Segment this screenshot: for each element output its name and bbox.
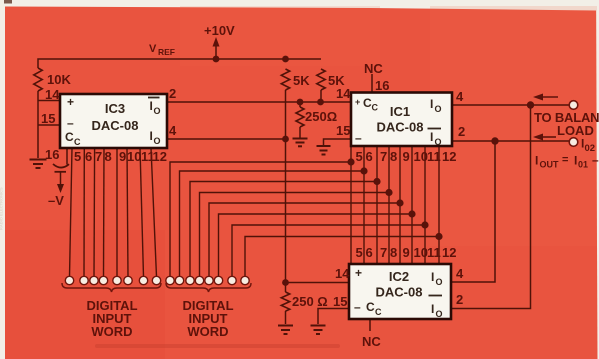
junction 250ohm1 top	[297, 99, 304, 106]
svg-text:9: 9	[403, 245, 410, 260]
svg-text:O: O	[435, 137, 442, 147]
junction staircase 6	[408, 210, 415, 217]
svg-text:8: 8	[105, 149, 112, 164]
svg-text:I: I	[431, 270, 434, 284]
svg-text:12: 12	[153, 149, 167, 164]
svg-text:10: 10	[414, 149, 428, 164]
svg-text:IC2: IC2	[389, 269, 409, 284]
svg-text:6: 6	[366, 149, 373, 164]
svg-text:5: 5	[356, 245, 363, 260]
junction staircase 3	[373, 178, 380, 185]
svg-text:2: 2	[458, 124, 465, 139]
svg-text:DAC-08: DAC-08	[92, 118, 139, 133]
svg-text:6: 6	[85, 149, 92, 164]
svg-text:9: 9	[119, 149, 126, 164]
wire IC3 left vertical to ground	[37, 101, 39, 159]
svg-text:14: 14	[336, 86, 351, 101]
ground under 250ohm2	[278, 326, 293, 335]
svg-text:=: =	[562, 154, 568, 166]
brace group 1	[62, 283, 161, 292]
junction +10V	[213, 56, 220, 63]
wire 250ohm1 drop	[299, 102, 301, 107]
wire staircase bus 4	[200, 193, 390, 277]
svg-text:WORD: WORD	[187, 324, 228, 339]
wire 5K1 vertical x=285	[285, 90, 287, 283]
svg-text:14: 14	[45, 87, 60, 102]
wire IC3 pin10 drop	[127, 148, 128, 277]
svg-text:I: I	[150, 129, 153, 143]
svg-text:6: 6	[366, 245, 373, 260]
wire IC3 pin14	[38, 100, 60, 102]
svg-text:15: 15	[41, 111, 55, 126]
IC1 DAC-08 body	[351, 93, 452, 147]
wire IC1-IC2 pin8 vertical	[388, 146, 390, 264]
svg-text:2: 2	[456, 292, 463, 307]
ground at IC1 pin15	[317, 146, 331, 155]
digital input terminals group 2	[166, 276, 249, 284]
wire IC3 pin4 line	[167, 138, 286, 140]
junction 5K1 top	[282, 56, 289, 63]
wire staircase bus 6	[219, 214, 413, 277]
svg-text:DAC-08: DAC-08	[377, 120, 424, 135]
svg-text:01: 01	[578, 160, 588, 170]
svg-text:C: C	[366, 300, 375, 314]
svg-text:OUT: OUT	[540, 160, 560, 170]
svg-text:10: 10	[127, 149, 141, 164]
junction staircase 8	[435, 233, 442, 240]
ground at 10K / IC3 left	[30, 160, 47, 169]
wire staircase bus 8	[245, 237, 439, 277]
wire IC1-IC2 pin12 vertical	[438, 146, 440, 264]
svg-text:NC: NC	[362, 334, 381, 349]
IC2 DAC-08 body	[349, 264, 451, 319]
svg-text:C: C	[65, 130, 74, 144]
svg-text:11: 11	[427, 149, 441, 164]
svg-text:9: 9	[403, 149, 410, 164]
current arrow 2	[541, 136, 556, 138]
wire IC1-IC2 pin11 vertical	[424, 146, 426, 264]
wire IC1-IC2 pin10 vertical	[411, 146, 413, 264]
wire 250ohm2 bottom to ground	[285, 283, 287, 293]
svg-text:NC: NC	[364, 61, 383, 76]
junction staircase 7	[421, 221, 428, 228]
svg-text:O: O	[435, 104, 442, 114]
svg-text:16: 16	[375, 78, 389, 93]
svg-text:+10V: +10V	[204, 23, 235, 38]
wire IC3 pin12 drop	[151, 148, 157, 277]
svg-text:O: O	[436, 277, 443, 287]
wire IC2 NC stub	[369, 318, 371, 331]
+10V supply arrow	[213, 37, 220, 47]
capacitor at IC3 pin16	[53, 164, 69, 172]
wire IC1-IC2 pin9 vertical	[399, 146, 401, 264]
svg-text:–V: –V	[48, 193, 64, 208]
wire IObar bus vertical	[451, 141, 495, 282]
wire IC3 pin7 drop	[93, 148, 96, 277]
wire staircase bus 1	[170, 162, 351, 277]
svg-text:WORD: WORD	[91, 324, 132, 339]
svg-text:+: +	[355, 266, 362, 280]
svg-text:12: 12	[442, 149, 456, 164]
wire IC1-IC2 pin6 vertical	[363, 146, 365, 264]
wire IC1 pin16 stub	[371, 74, 373, 93]
svg-text:15: 15	[333, 294, 347, 309]
wire +10V arrow stem	[215, 46, 217, 59]
IC3 DAC-08 body	[60, 94, 167, 148]
terminal circle IO1 output	[569, 101, 578, 110]
svg-text:–: –	[354, 300, 361, 314]
wire IC1 pin4 output line	[452, 104, 569, 106]
svg-text:7: 7	[380, 245, 387, 260]
svg-text:10: 10	[414, 245, 428, 260]
svg-text:16: 16	[45, 147, 59, 162]
resistor 10K	[34, 68, 42, 91]
resistor 250ohm second	[281, 292, 289, 311]
svg-text:O: O	[154, 136, 161, 146]
svg-text:5: 5	[74, 149, 81, 164]
svg-text:4: 4	[456, 266, 464, 281]
wire capacitor to -V arrow stem	[60, 172, 62, 185]
wire IC3 pin5 drop	[70, 148, 73, 277]
wire IC1-IC2 pin5 vertical	[350, 146, 352, 264]
resistor 5K first	[281, 69, 289, 90]
wire staircase bus 2	[180, 171, 365, 277]
wire VREF rail	[38, 59, 321, 68]
svg-text:O: O	[436, 309, 443, 319]
svg-text:4: 4	[169, 123, 177, 138]
svg-text:10K: 10K	[47, 72, 71, 87]
wire staircase bus 3	[190, 182, 377, 277]
svg-text:O: O	[154, 106, 161, 116]
svg-text:LOAD: LOAD	[557, 123, 594, 138]
svg-text:DAC-08: DAC-08	[376, 285, 423, 300]
svg-text:+: +	[67, 95, 74, 109]
svg-text:12: 12	[442, 245, 456, 260]
svg-text:RADIO ELECTRONICS: RADIO ELECTRONICS	[0, 187, 4, 230]
junction IC1 pin4 line	[527, 101, 534, 108]
svg-text:IC3: IC3	[105, 101, 125, 116]
svg-text:IC1: IC1	[390, 104, 410, 119]
svg-text:7: 7	[95, 149, 102, 164]
svg-text:2: 2	[169, 86, 176, 101]
svg-text:8: 8	[390, 149, 397, 164]
junction IC3 pin4 / 5K1	[282, 136, 289, 143]
svg-text:I: I	[430, 130, 433, 144]
digital input terminals group 1	[65, 276, 160, 284]
svg-text:250Ω: 250Ω	[305, 109, 337, 124]
wire IC1 pin15 to ground	[324, 139, 352, 145]
svg-text:7: 7	[380, 149, 387, 164]
svg-text:REF: REF	[158, 47, 175, 57]
svg-text:–: –	[67, 116, 74, 130]
wire IC3 pin6 drop	[83, 148, 85, 277]
resistor 250ohm first	[296, 107, 304, 127]
wire IC2 pin15 to ground	[318, 309, 349, 325]
wire IO bus right vertical	[451, 105, 531, 309]
svg-text:C: C	[375, 307, 382, 317]
svg-text:15: 15	[336, 123, 350, 138]
ground at IC2 pin15	[311, 326, 326, 335]
wire IC3 pin15	[38, 124, 60, 126]
junction staircase 4	[385, 189, 392, 196]
svg-text:14: 14	[335, 266, 350, 281]
junction IC2 pin14	[282, 279, 289, 286]
svg-text:4: 4	[456, 89, 464, 104]
svg-text:+: +	[355, 97, 360, 107]
svg-text:5: 5	[356, 149, 363, 164]
resistor 5K second	[317, 69, 325, 90]
svg-text:C: C	[74, 137, 81, 147]
svg-text:I: I	[431, 302, 434, 316]
-V supply arrow	[57, 184, 64, 193]
junction staircase 2	[360, 167, 367, 174]
svg-text:I: I	[430, 97, 433, 111]
wire IC3 pin16 stub	[66, 148, 68, 165]
svg-text:I: I	[574, 154, 577, 168]
svg-text:I: I	[150, 99, 153, 113]
wire staircase bus 5	[209, 203, 400, 277]
wire IC3 pin9 drop	[116, 148, 118, 277]
brace group 2	[166, 283, 251, 292]
svg-text:V: V	[149, 43, 157, 55]
terminal circle IO2 output	[569, 138, 578, 147]
wire 5K2 drop	[320, 90, 322, 102]
svg-text:250 Ω: 250 Ω	[292, 294, 328, 309]
svg-text:C: C	[372, 103, 379, 113]
current arrow 1	[541, 96, 558, 98]
wire IC3 pin2 to IC1 pin14	[167, 101, 351, 103]
wire IC3 pin11 drop	[140, 148, 144, 277]
junction 5K2 bottom	[317, 99, 324, 106]
svg-text:–: –	[592, 153, 599, 167]
wire IC1-IC2 pin7 vertical	[376, 146, 378, 264]
wire IC2 pin14	[286, 282, 350, 284]
wire IC1 pin2 output line	[452, 140, 569, 142]
wire staircase bus 7	[232, 225, 425, 277]
junction IC1 pin2 line	[491, 137, 498, 144]
svg-text:11: 11	[427, 245, 441, 260]
svg-text:5K: 5K	[293, 73, 310, 88]
junction staircase 5	[396, 199, 403, 206]
wire IC3 pin8 drop	[103, 148, 106, 277]
svg-text:I: I	[535, 154, 538, 168]
ground under 250ohm1	[293, 139, 308, 147]
svg-text:–: –	[355, 131, 362, 145]
junction staircase 1	[347, 158, 354, 165]
svg-text:8: 8	[390, 245, 397, 260]
